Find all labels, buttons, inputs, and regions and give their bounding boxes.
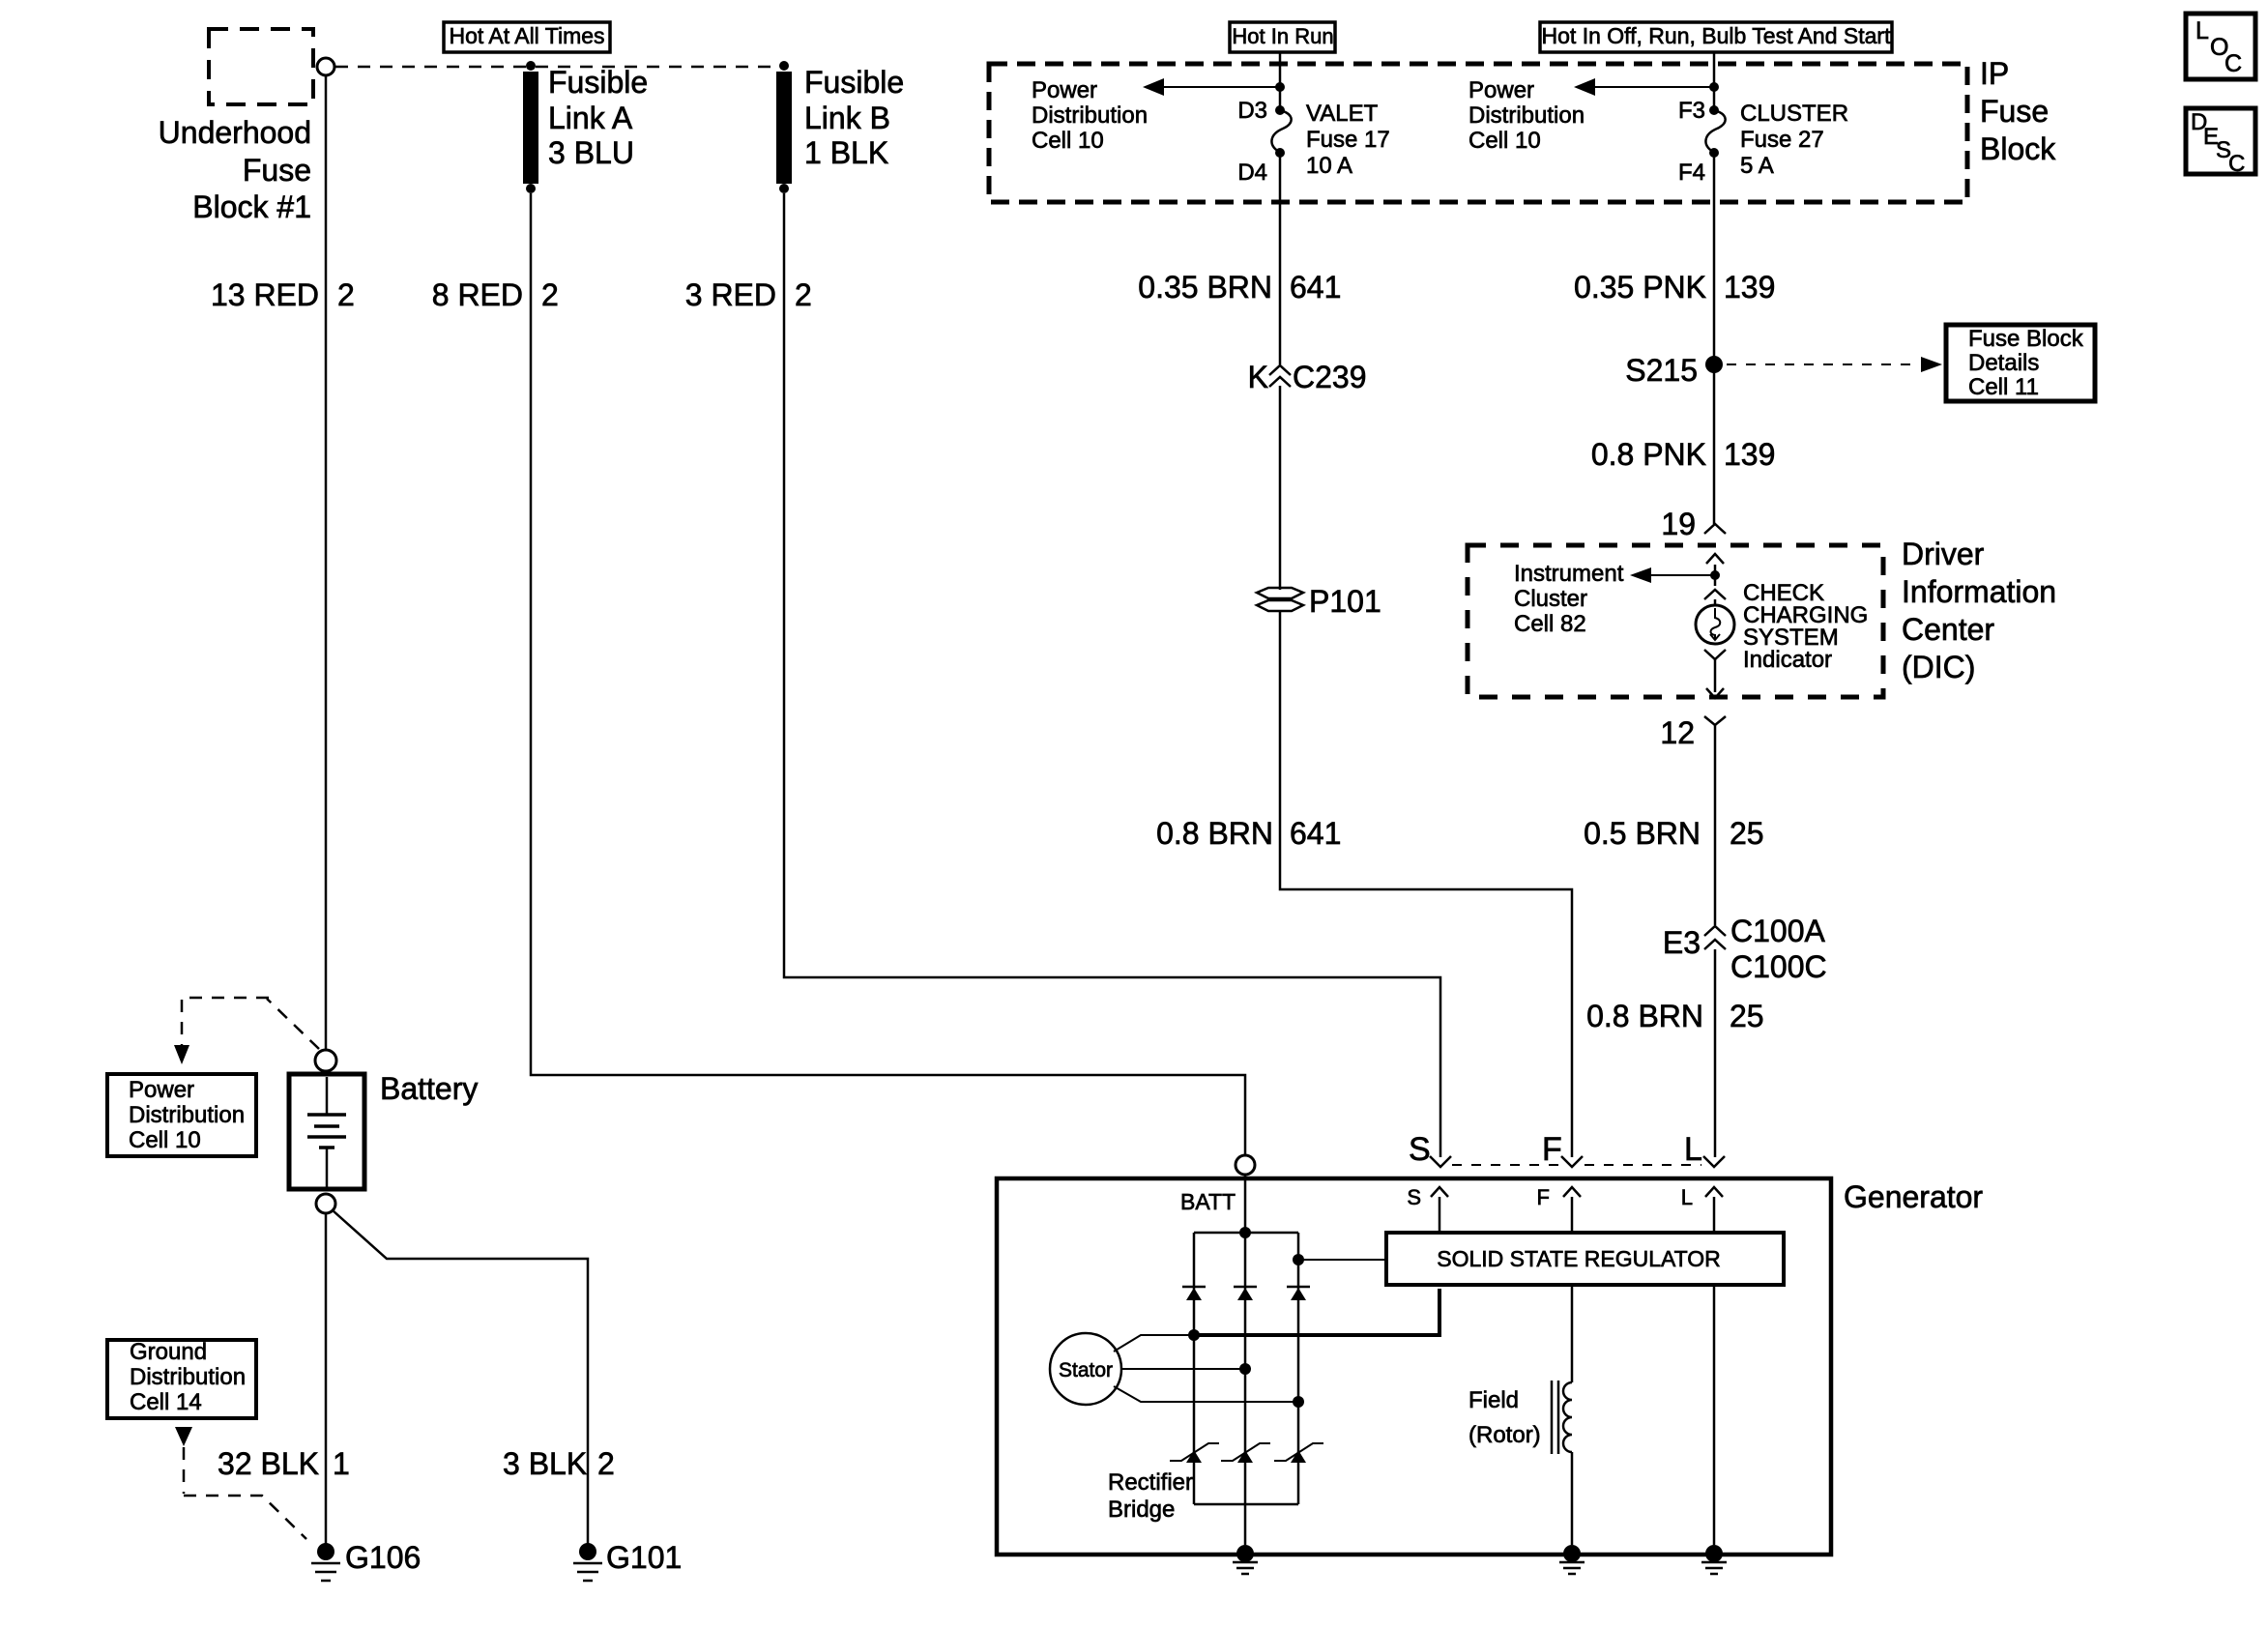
svg-text:S: S <box>1409 1131 1431 1168</box>
svg-text:Bridge: Bridge <box>1108 1497 1175 1523</box>
svg-text:0.35 PNK: 0.35 PNK <box>1574 270 1706 305</box>
svg-text:Distribution: Distribution <box>129 1102 245 1128</box>
svg-text:Battery: Battery <box>380 1071 478 1106</box>
svg-text:E3: E3 <box>1663 925 1701 960</box>
svg-text:10 A: 10 A <box>1306 153 1352 179</box>
svg-text:19: 19 <box>1661 507 1696 541</box>
svg-text:Cell 10: Cell 10 <box>129 1127 201 1153</box>
svg-text:C100C: C100C <box>1730 949 1827 984</box>
svg-text:Cluster: Cluster <box>1514 586 1587 612</box>
svg-text:IP: IP <box>1980 56 2009 91</box>
svg-text:3 BLK: 3 BLK <box>503 1446 587 1481</box>
svg-text:C100A: C100A <box>1730 914 1826 948</box>
svg-text:Power: Power <box>1468 77 1534 103</box>
svg-text:0.35 BRN: 0.35 BRN <box>1138 270 1272 305</box>
svg-text:Instrument: Instrument <box>1514 561 1624 587</box>
svg-text:Distribution: Distribution <box>1468 102 1585 129</box>
svg-text:5 A: 5 A <box>1740 153 1774 179</box>
svg-text:Cell 11: Cell 11 <box>1968 374 2039 400</box>
svg-text:0.8 BRN: 0.8 BRN <box>1156 816 1273 851</box>
svg-text:Cell 82: Cell 82 <box>1514 611 1586 637</box>
svg-text:Indicator: Indicator <box>1743 647 1832 673</box>
svg-text:12: 12 <box>1660 715 1695 750</box>
svg-text:2: 2 <box>337 277 355 312</box>
svg-text:Information: Information <box>1902 574 2056 609</box>
svg-text:C: C <box>2224 50 2242 77</box>
svg-text:K: K <box>1248 360 1268 394</box>
svg-text:Fuse 27: Fuse 27 <box>1740 127 1824 153</box>
svg-text:25: 25 <box>1730 816 1764 851</box>
svg-text:Fusible: Fusible <box>804 65 904 100</box>
svg-text:641: 641 <box>1290 816 1341 851</box>
svg-text:VALET: VALET <box>1306 101 1379 127</box>
svg-text:1: 1 <box>333 1446 350 1481</box>
svg-text:Fuse 17: Fuse 17 <box>1306 127 1390 153</box>
svg-text:Power: Power <box>1032 77 1097 103</box>
svg-text:S215: S215 <box>1625 353 1698 388</box>
svg-text:SOLID STATE REGULATOR: SOLID STATE REGULATOR <box>1437 1246 1721 1271</box>
svg-text:Fuse: Fuse <box>243 153 311 188</box>
svg-text:2: 2 <box>597 1446 615 1481</box>
svg-text:(DIC): (DIC) <box>1902 650 1975 684</box>
svg-text:Rectifier: Rectifier <box>1108 1469 1193 1496</box>
svg-text:Block: Block <box>1980 131 2056 166</box>
svg-text:Field: Field <box>1468 1387 1519 1413</box>
svg-text:Underhood: Underhood <box>159 115 311 150</box>
svg-text:L: L <box>1684 1131 1702 1168</box>
svg-text:F: F <box>1542 1131 1562 1168</box>
svg-text:L: L <box>1681 1185 1693 1209</box>
svg-text:25: 25 <box>1730 999 1764 1033</box>
svg-text:2: 2 <box>541 277 559 312</box>
svg-text:139: 139 <box>1724 437 1775 472</box>
svg-text:CLUSTER: CLUSTER <box>1740 101 1848 127</box>
svg-text:Link B: Link B <box>804 101 890 135</box>
svg-text:Cell 10: Cell 10 <box>1032 128 1104 154</box>
svg-text:Hot In Run: Hot In Run <box>1232 24 1333 48</box>
svg-text:3 RED: 3 RED <box>685 277 776 312</box>
svg-text:(Rotor): (Rotor) <box>1468 1422 1541 1448</box>
svg-text:F3: F3 <box>1678 98 1705 124</box>
svg-text:13 RED: 13 RED <box>211 277 319 312</box>
svg-text:8 RED: 8 RED <box>432 277 523 312</box>
svg-text:Hot At All Times: Hot At All Times <box>449 23 604 48</box>
svg-text:Fuse Block: Fuse Block <box>1968 326 2084 352</box>
svg-text:Stator: Stator <box>1059 1359 1113 1381</box>
svg-text:0.5 BRN: 0.5 BRN <box>1584 816 1701 851</box>
svg-text:D4: D4 <box>1237 160 1267 186</box>
svg-text:0.8 BRN: 0.8 BRN <box>1586 999 1703 1033</box>
svg-text:Fusible: Fusible <box>548 65 648 100</box>
svg-text:Driver: Driver <box>1902 537 1985 571</box>
svg-text:Hot In Off, Run, Bulb Test And: Hot In Off, Run, Bulb Test And Start <box>1542 23 1892 48</box>
svg-text:Fuse: Fuse <box>1980 94 2049 129</box>
svg-text:L: L <box>2195 17 2209 44</box>
svg-text:3 BLU: 3 BLU <box>548 135 634 170</box>
svg-text:Center: Center <box>1902 612 1994 647</box>
svg-text:Distribution: Distribution <box>1032 102 1148 129</box>
svg-text:139: 139 <box>1724 270 1775 305</box>
svg-text:S: S <box>1407 1185 1421 1209</box>
svg-text:C: C <box>2228 151 2245 177</box>
svg-text:0.8 PNK: 0.8 PNK <box>1591 437 1706 472</box>
svg-text:BATT: BATT <box>1180 1189 1236 1214</box>
svg-text:Generator: Generator <box>1844 1179 1983 1214</box>
svg-text:641: 641 <box>1290 270 1341 305</box>
svg-text:F4: F4 <box>1678 160 1705 186</box>
svg-text:D3: D3 <box>1237 98 1267 124</box>
svg-text:Block #1: Block #1 <box>192 189 311 224</box>
svg-text:Link A: Link A <box>548 101 633 135</box>
svg-text:1 BLK: 1 BLK <box>804 135 888 170</box>
svg-text:32 BLK: 32 BLK <box>218 1446 319 1481</box>
svg-text:Cell 10: Cell 10 <box>1468 128 1541 154</box>
svg-text:C239: C239 <box>1293 360 1367 394</box>
svg-text:G101: G101 <box>606 1540 682 1575</box>
svg-text:F: F <box>1537 1185 1550 1209</box>
svg-text:Ground: Ground <box>130 1339 207 1365</box>
svg-text:Power: Power <box>129 1077 194 1103</box>
svg-text:2: 2 <box>795 277 812 312</box>
svg-text:Details: Details <box>1968 350 2039 376</box>
svg-text:G106: G106 <box>345 1540 421 1575</box>
svg-text:Cell 14: Cell 14 <box>130 1389 202 1415</box>
svg-text:P101: P101 <box>1309 584 1381 619</box>
svg-text:Distribution: Distribution <box>130 1364 246 1390</box>
